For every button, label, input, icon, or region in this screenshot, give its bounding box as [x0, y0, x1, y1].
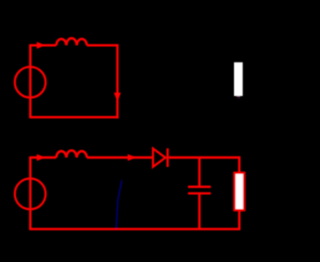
wire left rail (through source) — [29, 158, 31, 230]
load resistor R (white with red outline) — [234, 173, 244, 210]
capacitor C1 bottom lead — [198, 193, 200, 229]
inductor L1 — [56, 38, 87, 45]
capacitor C1 top lead — [198, 158, 200, 187]
current arrow (right wire, down) — [114, 93, 121, 102]
capacitor C1 bottom plate — [188, 192, 211, 194]
diode D1 triangle — [153, 149, 165, 167]
inductor L2 — [56, 150, 87, 157]
wire left rail (through source) — [29, 45, 31, 117]
faint residue mark — [237, 96, 241, 98]
wire top rail: diode to load corner — [169, 156, 241, 158]
wire right rail upper (to resistor) — [238, 158, 240, 173]
wire top rail: source to inductor — [29, 156, 56, 158]
diode D1 cathode bar — [166, 148, 168, 167]
wire top rail: inductor to diode — [87, 156, 152, 158]
capacitor C1 top plate — [188, 186, 211, 188]
current arrow (before diode) — [128, 154, 137, 161]
current arrow (source side) — [37, 154, 46, 161]
wire right rail — [116, 44, 118, 118]
switch S (open, blue blade) — [116, 180, 122, 228]
current arrow (top wire, right) — [37, 42, 46, 49]
voltage source V2 — [15, 179, 46, 210]
load box (disconnected, white) — [234, 62, 243, 96]
voltage source V1 — [15, 67, 46, 98]
wire bottom rail — [29, 116, 118, 118]
wire top rail right segment — [87, 44, 118, 46]
wire bottom rail — [29, 228, 240, 230]
wire top rail left segment — [29, 44, 56, 46]
wire right rail lower (resistor to bottom) — [238, 210, 240, 229]
